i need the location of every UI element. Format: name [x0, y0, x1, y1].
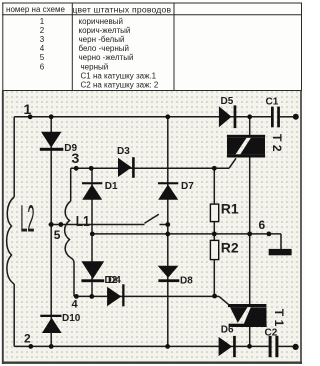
- svg-text:4: 4: [72, 298, 79, 310]
- diode D7: [158, 182, 178, 200]
- wire: D1/D2 vertical branch: [91, 168, 93, 296]
- endpoint dot bottom right: [293, 344, 299, 350]
- svg-text:номер на схеме: номер на схеме: [6, 5, 65, 14]
- wire: top bus after C1: [280, 116, 293, 118]
- svg-text:С1 на катушку заж.1: С1 на катушку заж.1: [81, 71, 157, 80]
- svg-text:D7: D7: [181, 181, 194, 192]
- wire: node4 horizontal: [74, 295, 219, 297]
- wire: T2 anode from top bus: [249, 117, 251, 137]
- capacitor C2: [269, 336, 279, 357]
- svg-text:D3: D3: [117, 146, 130, 157]
- junction dots bottom bus: [28, 344, 33, 349]
- svg-text:D1: D1: [105, 181, 118, 192]
- switch blade (breaker contact): [145, 214, 159, 223]
- inductor L1 (ignition feed coil): [65, 201, 71, 258]
- svg-text:2: 2: [24, 332, 31, 346]
- wire: D9/D10 vertical branch: [50, 117, 52, 347]
- wire: T2 to T1 vertical: [249, 155, 251, 305]
- svg-text:D4: D4: [108, 275, 121, 286]
- junction dots node3 wire: [74, 166, 79, 171]
- diode D9: [40, 132, 64, 151]
- wire: T2 gate diagonal: [229, 158, 236, 168]
- svg-text:5: 5: [40, 53, 45, 62]
- svg-text:черн -белый: черн -белый: [79, 35, 125, 44]
- svg-text:корич-желтый: корич-желтый: [79, 26, 131, 35]
- thyristor T1: [228, 304, 267, 327]
- diode D6: [219, 336, 236, 357]
- svg-text:R2: R2: [221, 239, 239, 255]
- wire: R1-R2 middle lead: [213, 222, 215, 241]
- table: wire color legend: [2, 3, 302, 91]
- svg-text:С2 на катушку заж: 2: С2 на катушку заж: 2: [81, 81, 159, 90]
- diode D3: [118, 157, 135, 178]
- svg-text:6: 6: [40, 62, 45, 71]
- wire: T1 cathode to bottom bus: [249, 327, 251, 346]
- wire: L1 bottom to node4: [71, 258, 74, 296]
- wire: bottom bus left of C2: [14, 345, 268, 347]
- wire: node3 down to L1: [70, 168, 72, 201]
- svg-text:цвет штатных проводов: цвет штатных проводов: [72, 4, 171, 14]
- diode D4: [107, 284, 124, 306]
- svg-text:6: 6: [259, 218, 266, 232]
- svg-text:3: 3: [40, 35, 45, 44]
- junction dots node4 wire: [74, 294, 79, 299]
- wire: left branch down to L2: [13, 117, 15, 197]
- svg-text:L2: L2: [20, 198, 34, 241]
- diode D2: [81, 261, 104, 282]
- terminal bar at node 6: [269, 249, 292, 255]
- junction dots node6 wire: [90, 232, 95, 237]
- resistor R2: [210, 240, 218, 259]
- inductor L2 (generator winding): [7, 197, 15, 284]
- schematic outer border: [2, 91, 302, 365]
- svg-text:L1: L1: [76, 213, 90, 230]
- svg-text:черно -желтый: черно -желтый: [79, 53, 134, 62]
- thyristor T2: [227, 135, 265, 158]
- svg-text:коричневый: коричневый: [79, 17, 123, 26]
- resistor R1: [210, 204, 218, 222]
- svg-text:4: 4: [40, 44, 45, 53]
- svg-text:D6: D6: [221, 325, 234, 336]
- wire: left branch below L2: [13, 284, 15, 346]
- junction dots node5 wire: [49, 222, 54, 227]
- wire: node6 drop to terminal: [280, 234, 282, 250]
- svg-text:бело -черный: бело -черный: [79, 44, 129, 53]
- svg-text:C1: C1: [266, 97, 279, 108]
- wire: D7/D8 vertical branch: [167, 117, 169, 347]
- diode D10: [40, 315, 61, 333]
- wire: node3 horizontal to T2 gate: [71, 167, 229, 169]
- wire: node5 stub right of switch: [160, 224, 169, 226]
- capacitor C1: [271, 107, 280, 128]
- svg-text:D10: D10: [62, 313, 81, 324]
- svg-text:2: 2: [40, 26, 45, 35]
- wire: R2 bottom lead: [213, 260, 215, 297]
- wire: node6 horizontal: [92, 233, 281, 235]
- svg-text:черный: черный: [81, 62, 109, 71]
- svg-text:1: 1: [24, 101, 32, 117]
- wire: top bus node1 to C1: [14, 116, 271, 118]
- svg-text:T2: T2: [270, 134, 284, 155]
- endpoint dot top right: [293, 114, 299, 120]
- diode D8: [158, 266, 180, 282]
- wire: node5 horizontal left part: [49, 224, 145, 226]
- svg-text:5: 5: [54, 228, 61, 242]
- svg-text:D8: D8: [180, 276, 193, 287]
- svg-text:T1: T1: [272, 309, 286, 330]
- diode D5: [219, 105, 236, 128]
- wire: R1 top lead: [213, 168, 215, 204]
- wire: T1 gate diagonal: [219, 296, 229, 304]
- diode D1: [82, 182, 102, 200]
- svg-text:R1: R1: [221, 201, 239, 217]
- node junction dots top bus: [28, 114, 33, 119]
- svg-text:D5: D5: [221, 96, 234, 107]
- svg-text:3: 3: [72, 150, 80, 166]
- wire: bottom bus right of C2: [279, 345, 294, 347]
- svg-text:1: 1: [40, 17, 45, 26]
- schematic dotted board background: [3, 91, 301, 364]
